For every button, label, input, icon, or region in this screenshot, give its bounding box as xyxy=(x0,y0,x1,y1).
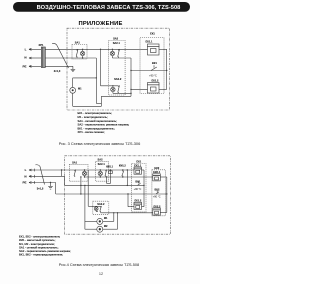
svg-text:ЕК2.2: ЕК2.2 xyxy=(154,204,161,208)
svg-text:Рис. 3 Схема электрическая зав: Рис. 3 Схема электрическая завесы TZS-30… xyxy=(59,141,140,146)
svg-text:ЕК1.2: ЕК1.2 xyxy=(134,199,141,203)
svg-text:ПРИЛОЖЕНИЕ: ПРИЛОЖЕНИЕ xyxy=(78,21,122,27)
svg-text:SA2.1: SA2.1 xyxy=(98,162,106,166)
svg-text:3×1,0: 3×1,0 xyxy=(54,69,61,73)
svg-text:ВК2: ВК2 xyxy=(155,188,160,192)
svg-text:ХР1: ХР1 xyxy=(39,43,44,47)
svg-text:ЕК1.2: ЕК1.2 xyxy=(152,78,159,82)
svg-text:ВК1, ВК2 - термопредохранители: ВК1, ВК2 - термопредохранители; xyxy=(19,253,63,257)
svg-text:КМ1.1: КМ1.1 xyxy=(106,166,113,169)
svg-text:ЕК2: ЕК2 xyxy=(154,166,159,170)
svg-text:+90 °С: +90 °С xyxy=(153,195,161,198)
svg-text:М1: М1 xyxy=(78,87,82,91)
svg-text:+90 °С: +90 °С xyxy=(134,188,142,191)
svg-text:SA2.2: SA2.2 xyxy=(114,77,122,81)
svg-text:PE: PE xyxy=(22,181,26,185)
svg-text:L: L xyxy=(25,168,27,172)
svg-text:КМ1.2: КМ1.2 xyxy=(119,165,126,168)
svg-text:3×1,5: 3×1,5 xyxy=(37,187,44,191)
svg-text:М1: М1 xyxy=(104,216,108,220)
svg-text:ЕК1.1: ЕК1.1 xyxy=(146,40,153,44)
svg-text:ЕК1: ЕК1 xyxy=(136,160,141,164)
svg-text:М2: М2 xyxy=(104,224,108,228)
svg-text:N: N xyxy=(24,174,26,178)
svg-text:SA1: SA1 xyxy=(72,160,78,164)
svg-text:ВК1: ВК1 xyxy=(152,61,157,65)
svg-text:N: N xyxy=(24,55,26,59)
svg-text:SA2: SA2 xyxy=(97,158,103,162)
svg-text:12: 12 xyxy=(99,272,103,276)
svg-text:SA2: SA2 xyxy=(113,36,119,40)
svg-text:ВК1: ВК1 xyxy=(135,180,140,184)
svg-text:L: L xyxy=(25,47,27,51)
svg-text:Рис.4 Схема электрическая заве: Рис.4 Схема электрическая завесы TZS-508 xyxy=(59,262,139,267)
svg-text:SA2.1: SA2.1 xyxy=(113,41,121,45)
svg-text:ХР1 - вилка сетевая;: ХР1 - вилка сетевая; xyxy=(78,130,105,134)
svg-text:ЕК1.1: ЕК1.1 xyxy=(134,164,141,168)
svg-text:ЕК2.1: ЕК2.1 xyxy=(153,170,160,174)
svg-text:SA1: SA1 xyxy=(75,41,81,45)
svg-text:PE: PE xyxy=(22,64,26,68)
svg-text:ЕК1: ЕК1 xyxy=(150,32,155,36)
svg-text:SA2.2: SA2.2 xyxy=(97,202,105,206)
svg-text:ВОЗДУШНО-ТЕПЛОВАЯ ЗАВЕСА TZS-3: ВОЗДУШНО-ТЕПЛОВАЯ ЗАВЕСА TZS-306, TZS-50… xyxy=(37,5,181,11)
svg-text:+90 °С: +90 °С xyxy=(149,74,157,77)
